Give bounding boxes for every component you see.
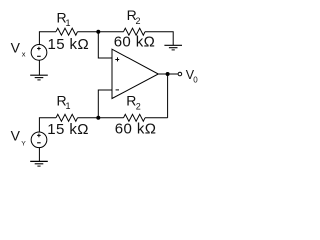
- svg-text:0: 0: [193, 75, 198, 84]
- svg-text:1: 1: [66, 101, 71, 111]
- label R2 (top): [127, 7, 141, 26]
- wire node C to op-amp - input: [98, 90, 112, 118]
- svg-text:2: 2: [136, 101, 141, 111]
- svg-text:1: 1: [66, 18, 71, 28]
- label R1 (top): [57, 10, 71, 29]
- svg-text:x: x: [22, 50, 26, 59]
- wire node C to R2 (bottom): [98, 117, 123, 119]
- svg-text:V: V: [11, 127, 21, 143]
- wire R2 to ground (top right): [145, 32, 173, 45]
- svg-text:15 kΩ: 15 kΩ: [48, 36, 90, 53]
- resistor R2 (top): [124, 28, 146, 35]
- ground (top right): [164, 45, 182, 50]
- voltage source VY: [31, 132, 47, 148]
- voltage source VX: [31, 45, 47, 61]
- wire VX to ground: [38, 60, 40, 75]
- svg-text:V: V: [11, 39, 21, 55]
- ground (below VY): [30, 161, 48, 166]
- resistor R1 (bottom): [56, 114, 78, 121]
- label VY: [11, 127, 27, 147]
- wire VY to ground: [38, 148, 40, 162]
- svg-text:60 kΩ: 60 kΩ: [115, 121, 157, 138]
- op-amp U1: [112, 49, 158, 98]
- op-amp plus sign: [115, 57, 119, 61]
- wire R2 to node B riser: [145, 117, 168, 119]
- ground (below VX): [30, 75, 48, 80]
- wire VY up to bottom rail: [39, 118, 56, 132]
- wire node A to op-amp + input: [98, 32, 112, 58]
- label vo: [186, 68, 199, 84]
- node A junction dot: [96, 30, 100, 34]
- terminal vo open circle: [178, 72, 182, 76]
- svg-text:60 kΩ: 60 kΩ: [114, 34, 156, 51]
- wire op-amp output: [158, 73, 178, 75]
- wire VX up to top rail: [39, 32, 56, 45]
- node C junction dot: [96, 116, 100, 120]
- op-amp minus sign: [116, 89, 119, 91]
- label R2 (bottom): [126, 92, 141, 111]
- wire node B down to bottom R2: [167, 74, 169, 118]
- label R1 (bottom): [57, 92, 71, 111]
- wire node A to R2: [98, 31, 123, 33]
- label VX: [11, 39, 26, 58]
- resistor R2 (bottom): [124, 114, 146, 121]
- svg-text:2: 2: [136, 16, 141, 26]
- resistor R1 (top): [56, 28, 78, 35]
- svg-text:15 kΩ: 15 kΩ: [47, 121, 89, 138]
- wire R1 to node A: [78, 31, 99, 33]
- wire R1 to node C: [78, 117, 99, 119]
- node B junction dot (output): [166, 72, 170, 76]
- svg-text:Y: Y: [21, 140, 26, 147]
